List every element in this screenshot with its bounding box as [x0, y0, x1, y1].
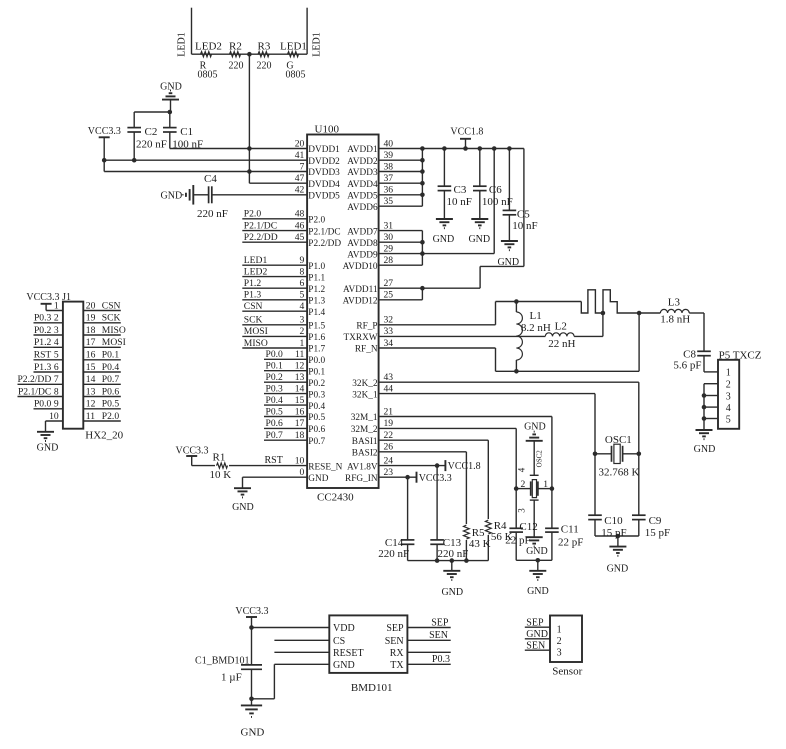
svg-text:P0.7: P0.7: [102, 374, 120, 385]
svg-text:Sensor: Sensor: [552, 666, 582, 678]
svg-text:SEN: SEN: [526, 640, 545, 651]
wire net P2.0 pin 48: [242, 218, 307, 220]
svg-text:P1.2: P1.2: [308, 285, 325, 295]
crystal OSC2 (4-pin): [530, 475, 539, 500]
wire net LED2 pin 8: [242, 276, 307, 278]
capacitor C1_BMD101: [241, 665, 262, 669]
ground below P5: [696, 430, 713, 439]
svg-text:43: 43: [384, 372, 394, 383]
wire OSC1 ground bus: [595, 535, 639, 537]
svg-text:P2.2/DD: P2.2/DD: [244, 232, 278, 243]
junction C14 tap: [405, 475, 410, 480]
junction on AVDD rail: [478, 146, 483, 151]
junction row 27: [420, 286, 425, 291]
wire AVDD bundle vertical 31-28: [421, 231, 423, 266]
svg-text:AVDD10: AVDD10: [343, 262, 378, 272]
svg-text:P0.3: P0.3: [266, 383, 284, 394]
svg-text:RF_N: RF_N: [355, 345, 378, 355]
svg-text:18: 18: [295, 430, 305, 441]
wire VCC3.3 stub: [191, 456, 193, 466]
svg-text:MOSI: MOSI: [102, 337, 126, 348]
wire to C9: [638, 454, 640, 515]
wire net P0.6 pin 17: [264, 427, 307, 429]
power symbol VCC3.3: [186, 455, 197, 457]
svg-text:P2.0: P2.0: [244, 209, 262, 220]
svg-text:GND: GND: [333, 660, 355, 671]
svg-text:56 K: 56 K: [491, 531, 513, 543]
wire RF top rail: [496, 301, 582, 303]
wire to DVDD4 pin 47: [249, 182, 307, 184]
svg-text:32.768 K: 32.768 K: [599, 467, 640, 479]
ground above C1: [162, 90, 179, 99]
svg-text:44: 44: [384, 383, 394, 394]
ground above OSC2: [526, 432, 543, 441]
svg-text:C1_BMD101: C1_BMD101: [195, 656, 249, 667]
junction on AVDD rail: [492, 146, 497, 151]
svg-text:P0.7: P0.7: [266, 430, 284, 441]
junction L1 top: [514, 299, 519, 304]
wire C11 lower: [551, 532, 553, 560]
svg-text:P0.4: P0.4: [308, 402, 325, 412]
capacitor C6: [473, 186, 487, 190]
wire net SCK pin 3: [242, 324, 307, 326]
junction AVDD row 4: [420, 181, 425, 186]
svg-text:VCC3.3: VCC3.3: [88, 126, 121, 137]
wire VCC3.3 stub down: [103, 137, 105, 171]
svg-text:1: 1: [54, 300, 59, 311]
ground below C6: [471, 219, 488, 228]
svg-text:1: 1: [543, 479, 548, 490]
junction R5: [464, 558, 469, 563]
junction C1 bottom / GND: [249, 697, 254, 702]
svg-text:31: 31: [384, 220, 394, 231]
svg-text:22 pF: 22 pF: [558, 536, 583, 548]
svg-text:GND: GND: [161, 191, 183, 202]
wire AVDD bundle vertical upper: [421, 149, 423, 207]
svg-text:13: 13: [86, 386, 96, 397]
wire 32M_1 pin 21: [379, 416, 552, 418]
junction pin 3: [702, 393, 707, 398]
svg-text:MISO: MISO: [244, 338, 268, 349]
power symbol VCC1.8: [444, 460, 446, 471]
resistor R1: [217, 463, 228, 468]
svg-text:SEN: SEN: [385, 636, 404, 647]
wire net MOSI pin 2: [242, 335, 307, 337]
svg-text:3: 3: [557, 647, 562, 658]
power symbol VCC3.3: [246, 616, 257, 618]
svg-text:R1: R1: [213, 452, 226, 464]
wire pin 5 net RST: [34, 359, 63, 361]
inductor L1: [516, 312, 522, 360]
svg-text:42: 42: [295, 185, 305, 196]
wire C8 lower: [703, 356, 705, 372]
svg-text:RST: RST: [265, 455, 283, 466]
wire C9 lower: [638, 520, 640, 536]
capacitor C5: [503, 210, 517, 214]
wire net LED1 pin 9: [242, 264, 307, 266]
power symbol VCC3.3: [41, 303, 52, 305]
wire net P0.0 pin 11: [264, 358, 307, 360]
junction AVDD row 3: [420, 169, 425, 174]
ground below OSC2 bus: [529, 571, 546, 580]
svg-text:3: 3: [517, 508, 527, 513]
wire net P0.7 pin 18: [264, 439, 307, 441]
wire RF_N pin 34: [379, 347, 496, 349]
svg-text:SCK: SCK: [102, 313, 121, 324]
wire C12 lower: [515, 532, 517, 560]
svg-text:14: 14: [86, 374, 96, 385]
svg-text:LED1: LED1: [280, 40, 307, 52]
svg-text:27: 27: [384, 278, 394, 289]
wire AVDD row 2: [379, 159, 423, 161]
wire to C11: [551, 489, 553, 529]
svg-text:P1.2: P1.2: [244, 278, 262, 289]
wire L1 upper stub: [515, 302, 517, 313]
svg-text:R3: R3: [258, 40, 271, 52]
wire OSC1 right lead: [623, 453, 639, 455]
svg-text:2: 2: [557, 636, 562, 647]
wire 27 up: [479, 266, 481, 288]
wire RX: [407, 651, 450, 653]
svg-text:C9: C9: [649, 515, 662, 527]
svg-text:LED1: LED1: [244, 255, 268, 266]
svg-text:BMD101: BMD101: [351, 682, 393, 694]
svg-text:VDD: VDD: [333, 623, 355, 634]
svg-text:AVDD5: AVDD5: [347, 192, 378, 202]
svg-text:0805: 0805: [286, 69, 306, 80]
resistor LED1: [288, 52, 299, 57]
wire pin 15 net P0.4: [83, 371, 121, 373]
wire AVDD9 pin 29: [379, 253, 495, 255]
wire P5 ground bus: [703, 384, 705, 430]
svg-text:C14: C14: [385, 537, 404, 549]
svg-text:3: 3: [54, 325, 59, 336]
svg-text:220: 220: [257, 60, 272, 71]
svg-text:19: 19: [384, 418, 394, 429]
svg-text:P2.2/DD: P2.2/DD: [308, 239, 341, 249]
junction on AVDD rail: [507, 146, 512, 151]
wire R5 to bus: [465, 540, 467, 561]
wire AVDD row 4: [379, 182, 423, 184]
wire OSC2 ground bus: [516, 559, 552, 561]
wire C1_BMD101 lower: [251, 669, 253, 705]
svg-text:3: 3: [300, 315, 305, 326]
wire down to OSC1 right: [638, 382, 640, 454]
junction C2 bottom: [132, 158, 137, 163]
svg-text:C4: C4: [204, 173, 217, 185]
svg-text:220 nF: 220 nF: [197, 208, 228, 220]
svg-text:P1.3: P1.3: [34, 362, 52, 373]
capacitor C4: [209, 186, 212, 203]
svg-text:C6: C6: [489, 184, 502, 196]
svg-text:GND: GND: [527, 586, 549, 597]
svg-text:U100: U100: [315, 124, 340, 136]
svg-text:220 nF: 220 nF: [378, 548, 409, 560]
svg-text:P1.4: P1.4: [308, 308, 325, 318]
wire right: [480, 265, 524, 267]
wire pin 10 to ground: [45, 421, 47, 432]
capacitor C13: [430, 540, 444, 544]
svg-text:1 µF: 1 µF: [221, 671, 242, 683]
resistor R2: [230, 52, 241, 57]
svg-text:P2.0: P2.0: [308, 216, 325, 226]
svg-text:29: 29: [384, 243, 394, 254]
svg-text:45: 45: [295, 232, 305, 243]
svg-text:P1.2: P1.2: [34, 337, 52, 348]
wire AVDD row 8: [379, 230, 423, 232]
svg-text:P0.2: P0.2: [266, 372, 284, 383]
wire AVDD11 pin 27: [379, 287, 481, 289]
svg-text:40: 40: [384, 138, 394, 149]
svg-text:100 nF: 100 nF: [482, 196, 513, 208]
svg-text:32K_2: 32K_2: [352, 379, 378, 389]
svg-text:16: 16: [86, 350, 96, 361]
wire GND pin: [274, 663, 329, 665]
svg-text:AVDD12: AVDD12: [343, 297, 378, 307]
connector Sensor body: [550, 616, 582, 663]
wire AVDD12 pin 25: [379, 299, 423, 301]
junction C13 tap: [435, 463, 440, 468]
svg-text:10 K: 10 K: [210, 469, 232, 481]
wire pin 16 net P0.1: [83, 359, 121, 361]
wire C1 bottom to DVDD1 pin 20: [170, 148, 307, 150]
wire pin 9 net P0.0: [34, 408, 63, 410]
wire P5 ground pin: [704, 395, 718, 397]
svg-text:RX: RX: [390, 648, 405, 659]
wire to VDD: [252, 627, 330, 629]
capacitor C2: [127, 128, 141, 132]
wire pin 11 net P2.0: [83, 420, 121, 422]
svg-text:CSN: CSN: [102, 300, 121, 311]
svg-text:AVDD2: AVDD2: [347, 157, 378, 167]
wire C5 upper: [508, 149, 510, 211]
microstrip meander element: [581, 290, 639, 313]
connector P5 TXCZ body: [718, 360, 739, 429]
svg-text:9: 9: [54, 399, 59, 410]
svg-text:TXRXW: TXRXW: [344, 333, 378, 343]
wire net P2.2/DD pin 45: [242, 241, 307, 243]
wire RFG_IN pin 23: [379, 476, 417, 478]
svg-text:P1.3: P1.3: [308, 297, 325, 307]
svg-text:32M_2: 32M_2: [351, 425, 378, 435]
wire C5 lower: [508, 215, 510, 241]
svg-text:P0.6: P0.6: [308, 425, 325, 435]
wire AVDD row 11: [379, 264, 423, 266]
svg-text:24: 24: [384, 455, 394, 466]
junction VCC3.3 / DVDD2: [102, 158, 107, 163]
wire C6 upper: [479, 149, 481, 187]
svg-text:DVDD3: DVDD3: [308, 168, 340, 178]
wire down to OSC2 pin 1: [551, 417, 553, 489]
wire rail down to pin29 row: [493, 149, 495, 254]
svg-text:J1: J1: [62, 292, 71, 303]
wire down to OSC1 left: [594, 394, 596, 454]
svg-text:P1.6: P1.6: [308, 333, 325, 343]
junction ground: [616, 534, 621, 539]
svg-text:5: 5: [726, 414, 731, 425]
wire C2 lower stub: [133, 132, 135, 160]
svg-text:P0.0: P0.0: [34, 399, 52, 410]
svg-text:AV1.8V: AV1.8V: [347, 462, 378, 472]
svg-text:21: 21: [384, 406, 394, 417]
junction LED chain center: [247, 52, 252, 57]
wire down to ground: [242, 477, 244, 488]
svg-text:LED2: LED2: [195, 40, 222, 52]
svg-text:MOSI: MOSI: [244, 326, 268, 337]
wire AVDD rail pin 40: [379, 148, 524, 150]
wire SEN: [525, 649, 550, 651]
svg-text:32M_1: 32M_1: [351, 413, 378, 423]
junction on AVDD rail: [420, 146, 425, 151]
svg-text:11: 11: [86, 411, 95, 422]
svg-text:P1.7: P1.7: [308, 345, 325, 355]
svg-text:220 nF: 220 nF: [438, 548, 469, 560]
svg-text:48: 48: [295, 209, 305, 220]
svg-text:P0.1: P0.1: [308, 367, 325, 377]
svg-text:8.2 nH: 8.2 nH: [521, 322, 551, 334]
wire L1 lower stub: [515, 360, 517, 371]
svg-text:10 nF: 10 nF: [512, 220, 537, 232]
ground below C3: [436, 219, 453, 228]
svg-text:GND: GND: [526, 629, 548, 640]
wire AVDD row 6: [379, 205, 423, 207]
svg-text:8: 8: [300, 266, 305, 277]
capacitor C14: [401, 540, 415, 544]
wire RF_P up: [495, 302, 497, 325]
svg-text:15: 15: [295, 395, 305, 406]
wire C4 to DVDD5 pin 42: [212, 194, 307, 196]
svg-text:C10: C10: [604, 515, 623, 527]
svg-text:P0.2: P0.2: [34, 325, 52, 336]
wire ground stub: [451, 561, 453, 571]
svg-text:LED1: LED1: [312, 32, 323, 56]
ground below C13: [443, 571, 460, 580]
ground below J1: [37, 432, 54, 441]
junction at DVDD1 wire: [247, 146, 252, 151]
svg-text:P0.0: P0.0: [266, 349, 284, 360]
wire to C12: [515, 489, 517, 529]
resistor R5: [464, 525, 470, 539]
wire C6 lower: [479, 191, 481, 219]
wire BASI1 pin 22: [379, 439, 489, 441]
svg-text:1: 1: [726, 368, 731, 379]
svg-text:C1: C1: [180, 126, 193, 138]
svg-text:P0.6: P0.6: [266, 418, 284, 429]
connector J1 HX2_20 body: [63, 302, 83, 429]
svg-text:5.6 pF: 5.6 pF: [673, 360, 701, 372]
wire pin 6 net P1.3: [34, 371, 63, 373]
junction OSC2 pin 1: [550, 486, 555, 491]
svg-text:7: 7: [300, 161, 305, 172]
wire down to R4: [487, 440, 489, 519]
svg-text:P0.4: P0.4: [102, 362, 120, 373]
wire VCC1.8 stub: [465, 139, 467, 149]
ground below OSC2 pin 3: [526, 537, 543, 546]
svg-text:P2.2/DD: P2.2/DD: [17, 374, 51, 385]
svg-text:SEP: SEP: [386, 623, 404, 634]
svg-text:R2: R2: [229, 40, 242, 52]
junction OSC1 right: [637, 452, 642, 457]
wire pin 19 net SCK: [83, 322, 121, 324]
wire C13 lower: [436, 544, 438, 560]
wire AVDD row 9: [379, 241, 423, 243]
svg-text:35: 35: [384, 196, 394, 207]
wire net P1.3 pin 5: [242, 299, 307, 301]
svg-text:GND: GND: [241, 727, 265, 739]
wire AVDD row 5: [379, 194, 423, 196]
svg-text:P1.0: P1.0: [308, 262, 325, 272]
svg-text:C5: C5: [517, 208, 530, 220]
svg-text:P5 TXCZ: P5 TXCZ: [719, 349, 762, 361]
wire OSC2 right lead: [538, 488, 552, 490]
svg-text:22: 22: [384, 430, 394, 441]
ground below OSC1: [609, 547, 626, 556]
svg-text:28: 28: [384, 255, 394, 266]
wire SEP: [407, 627, 450, 629]
svg-text:RF_P: RF_P: [356, 322, 377, 332]
wire AV1.8V pin 24: [379, 465, 446, 467]
svg-text:RESET: RESET: [333, 648, 364, 659]
svg-text:VCC1.8: VCC1.8: [448, 461, 481, 472]
svg-text:3: 3: [726, 391, 731, 402]
wire OSC2 left lead: [516, 488, 531, 490]
svg-text:GND: GND: [232, 502, 254, 513]
svg-text:15 pF: 15 pF: [645, 527, 670, 539]
wire P5 ground pin: [704, 418, 718, 420]
svg-text:AVDD11: AVDD11: [343, 285, 378, 295]
wire TXRXW pin 33: [379, 335, 546, 337]
wire LED1 net left vertical: [191, 8, 193, 55]
svg-text:P1.1: P1.1: [308, 273, 325, 283]
junction L1 bottom: [514, 369, 519, 374]
capacitor C8: [697, 351, 711, 355]
svg-text:GND: GND: [524, 422, 546, 433]
svg-text:16: 16: [295, 406, 305, 417]
svg-text:5: 5: [54, 350, 59, 361]
wire net MISO pin 1: [242, 347, 307, 349]
wire SEN: [407, 639, 450, 641]
svg-text:L3: L3: [668, 297, 681, 309]
svg-text:0: 0: [300, 467, 305, 478]
wire GND to C4: [193, 194, 208, 196]
svg-text:220: 220: [229, 60, 244, 71]
svg-text:VCC3.3: VCC3.3: [176, 445, 209, 456]
svg-text:38: 38: [384, 161, 394, 172]
capacitor C12: [509, 528, 523, 532]
svg-text:P0.6: P0.6: [102, 386, 120, 397]
wire OSC1 left lead: [595, 453, 612, 455]
wire to DVDD2 pin 41: [104, 159, 307, 161]
svg-text:0805: 0805: [198, 69, 218, 80]
svg-text:AVDD6: AVDD6: [347, 203, 378, 213]
wire pin 14 net P0.7: [83, 383, 121, 385]
wire pin 10: [46, 420, 63, 422]
wire LED1 net right vertical: [306, 8, 308, 55]
svg-text:HX2_20: HX2_20: [85, 429, 123, 441]
wire AVDD row 3: [379, 171, 423, 173]
chip BMD101 body: [329, 615, 407, 673]
wire pin 4 net P1.2: [34, 346, 63, 348]
wire 32M_2 pin 19: [379, 427, 517, 429]
svg-text:DVDD1: DVDD1: [308, 145, 340, 155]
svg-text:10: 10: [295, 455, 305, 466]
wire GND down: [273, 664, 275, 699]
svg-text:15 pF: 15 pF: [601, 527, 626, 539]
capacitor C3: [438, 186, 452, 190]
svg-text:P2.1/DC: P2.1/DC: [18, 386, 51, 397]
svg-text:7: 7: [54, 374, 59, 385]
svg-text:P1.5: P1.5: [308, 322, 325, 332]
